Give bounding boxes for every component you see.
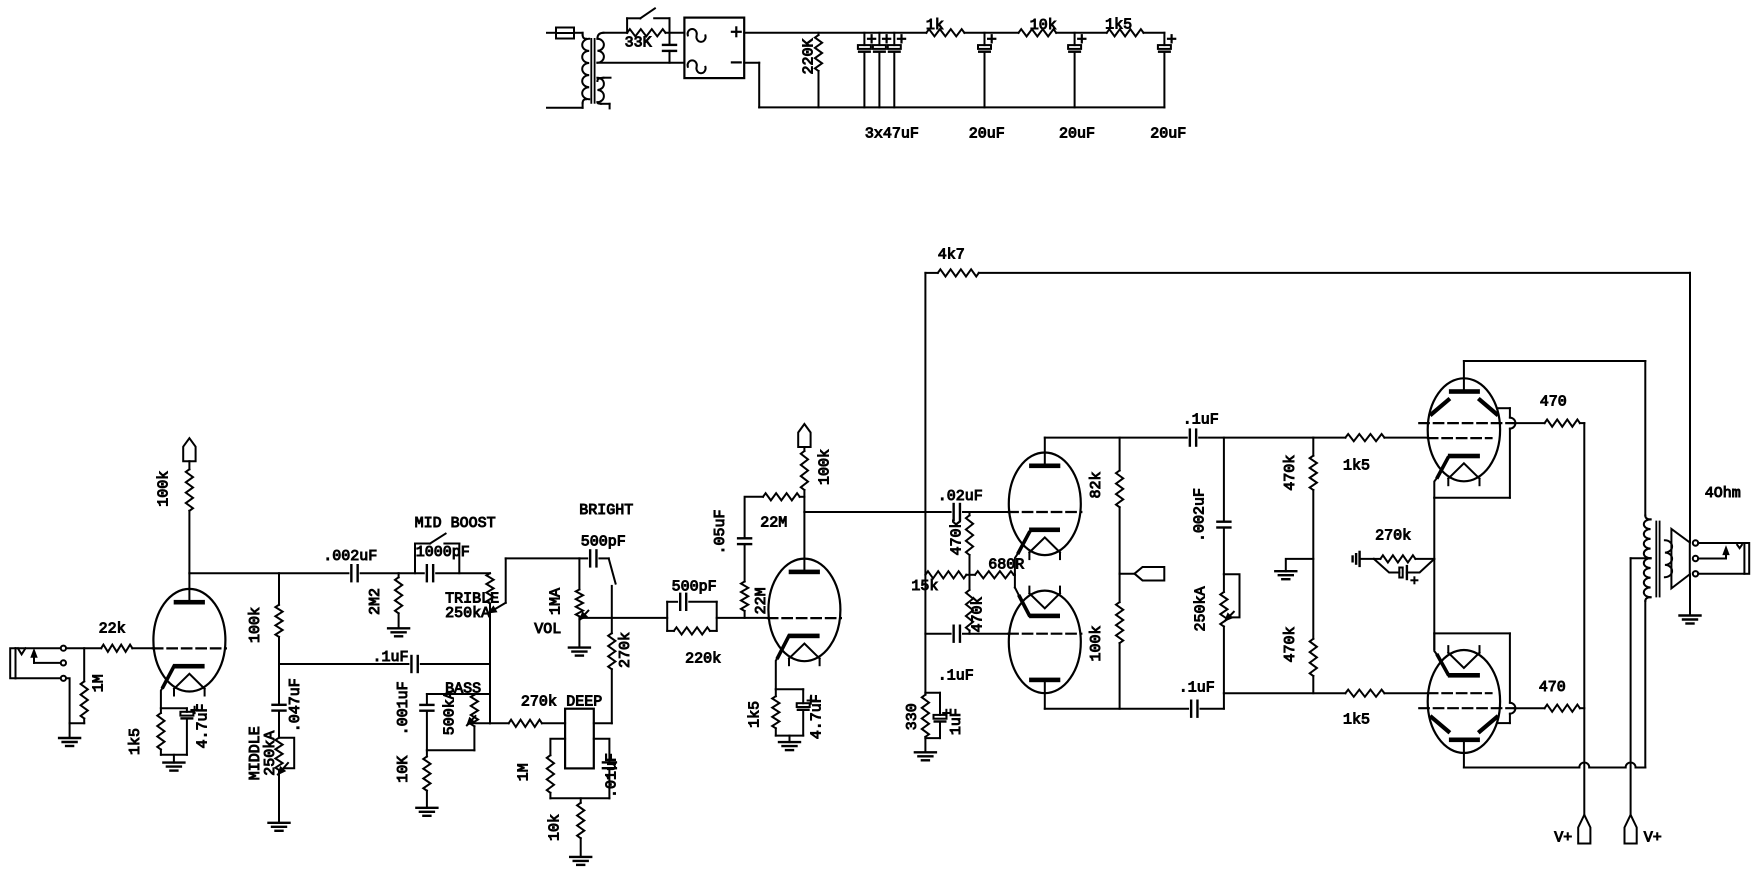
svg-text:250kA: 250kA: [445, 605, 490, 622]
svg-text:270k: 270k: [521, 693, 557, 710]
svg-text:.001uF: .001uF: [395, 681, 412, 735]
svg-text:1k5: 1k5: [127, 728, 144, 755]
svg-text:.002uF: .002uF: [1192, 488, 1209, 542]
svg-text:.1uF: .1uF: [1179, 679, 1215, 696]
svg-text:250kA: 250kA: [1192, 586, 1209, 631]
svg-text:1k5: 1k5: [1105, 16, 1132, 33]
svg-text:500pF: 500pF: [672, 578, 717, 595]
svg-text:470k: 470k: [1282, 626, 1299, 662]
svg-text:10K: 10K: [395, 756, 412, 783]
svg-text:33K: 33K: [625, 34, 652, 51]
svg-text:.05uF: .05uF: [712, 509, 729, 554]
svg-text:470k: 470k: [970, 596, 987, 632]
svg-text:330: 330: [904, 703, 921, 730]
svg-text:1k5: 1k5: [1343, 457, 1370, 474]
svg-text:1uF: 1uF: [948, 708, 965, 735]
svg-text:22M: 22M: [760, 515, 787, 532]
svg-text:500pF: 500pF: [581, 533, 626, 550]
svg-text:680R: 680R: [988, 556, 1024, 573]
svg-text:270k: 270k: [1375, 528, 1411, 545]
svg-text:.002uF: .002uF: [323, 548, 377, 565]
svg-text:20uF: 20uF: [1059, 126, 1095, 143]
svg-text:250kA: 250kA: [262, 731, 279, 776]
svg-text:3x47uF: 3x47uF: [865, 126, 919, 143]
svg-text:470: 470: [1539, 679, 1566, 696]
svg-text:1M: 1M: [516, 763, 533, 781]
svg-text:1000pF: 1000pF: [416, 544, 470, 561]
svg-text:4k7: 4k7: [938, 246, 965, 263]
svg-text:220K: 220K: [800, 38, 817, 74]
svg-text:100k: 100k: [247, 607, 264, 643]
svg-text:.1uF: .1uF: [1183, 412, 1219, 429]
svg-text:MID BOOST: MID BOOST: [415, 515, 496, 532]
svg-text:V+: V+: [1554, 829, 1572, 846]
svg-text:.01uF: .01uF: [604, 753, 621, 798]
svg-text:100k: 100k: [155, 471, 172, 507]
svg-text:1MA: 1MA: [548, 588, 565, 615]
svg-text:82k: 82k: [1088, 471, 1105, 498]
svg-text:100k: 100k: [816, 449, 833, 485]
svg-text:100k: 100k: [1088, 625, 1105, 661]
svg-text:470: 470: [1540, 394, 1567, 411]
svg-text:220k: 220k: [685, 650, 721, 667]
svg-text:1k: 1k: [926, 17, 944, 34]
svg-text:.02uF: .02uF: [938, 488, 983, 505]
svg-text:10k: 10k: [1030, 17, 1057, 34]
svg-text:20uF: 20uF: [1150, 126, 1186, 143]
svg-text:4.7uF: 4.7uF: [808, 694, 825, 739]
svg-text:.1uF: .1uF: [373, 649, 409, 666]
svg-text:470k: 470k: [1282, 455, 1299, 491]
svg-text:1k5: 1k5: [746, 701, 763, 728]
svg-text:.047uF: .047uF: [287, 678, 304, 732]
svg-text:22M: 22M: [753, 587, 770, 614]
svg-text:22k: 22k: [99, 621, 126, 638]
svg-text:270k: 270k: [617, 632, 634, 668]
svg-text:4Ohm: 4Ohm: [1705, 485, 1741, 502]
svg-text:2M2: 2M2: [367, 588, 384, 615]
svg-text:20uF: 20uF: [969, 126, 1005, 143]
svg-text:1k5: 1k5: [1343, 712, 1370, 729]
svg-text:10k: 10k: [547, 814, 564, 841]
svg-text:4.7uF: 4.7uF: [194, 703, 211, 748]
svg-text:BRIGHT: BRIGHT: [579, 502, 633, 519]
svg-text:VOL: VOL: [534, 621, 561, 638]
svg-text:15k: 15k: [911, 578, 938, 595]
svg-text:500kA: 500kA: [442, 690, 459, 735]
svg-text:1M: 1M: [91, 674, 108, 692]
svg-text:V+: V+: [1644, 830, 1662, 847]
svg-text:.1uF: .1uF: [938, 668, 974, 685]
svg-text:DEEP: DEEP: [566, 693, 602, 710]
svg-text:470k: 470k: [949, 519, 966, 555]
